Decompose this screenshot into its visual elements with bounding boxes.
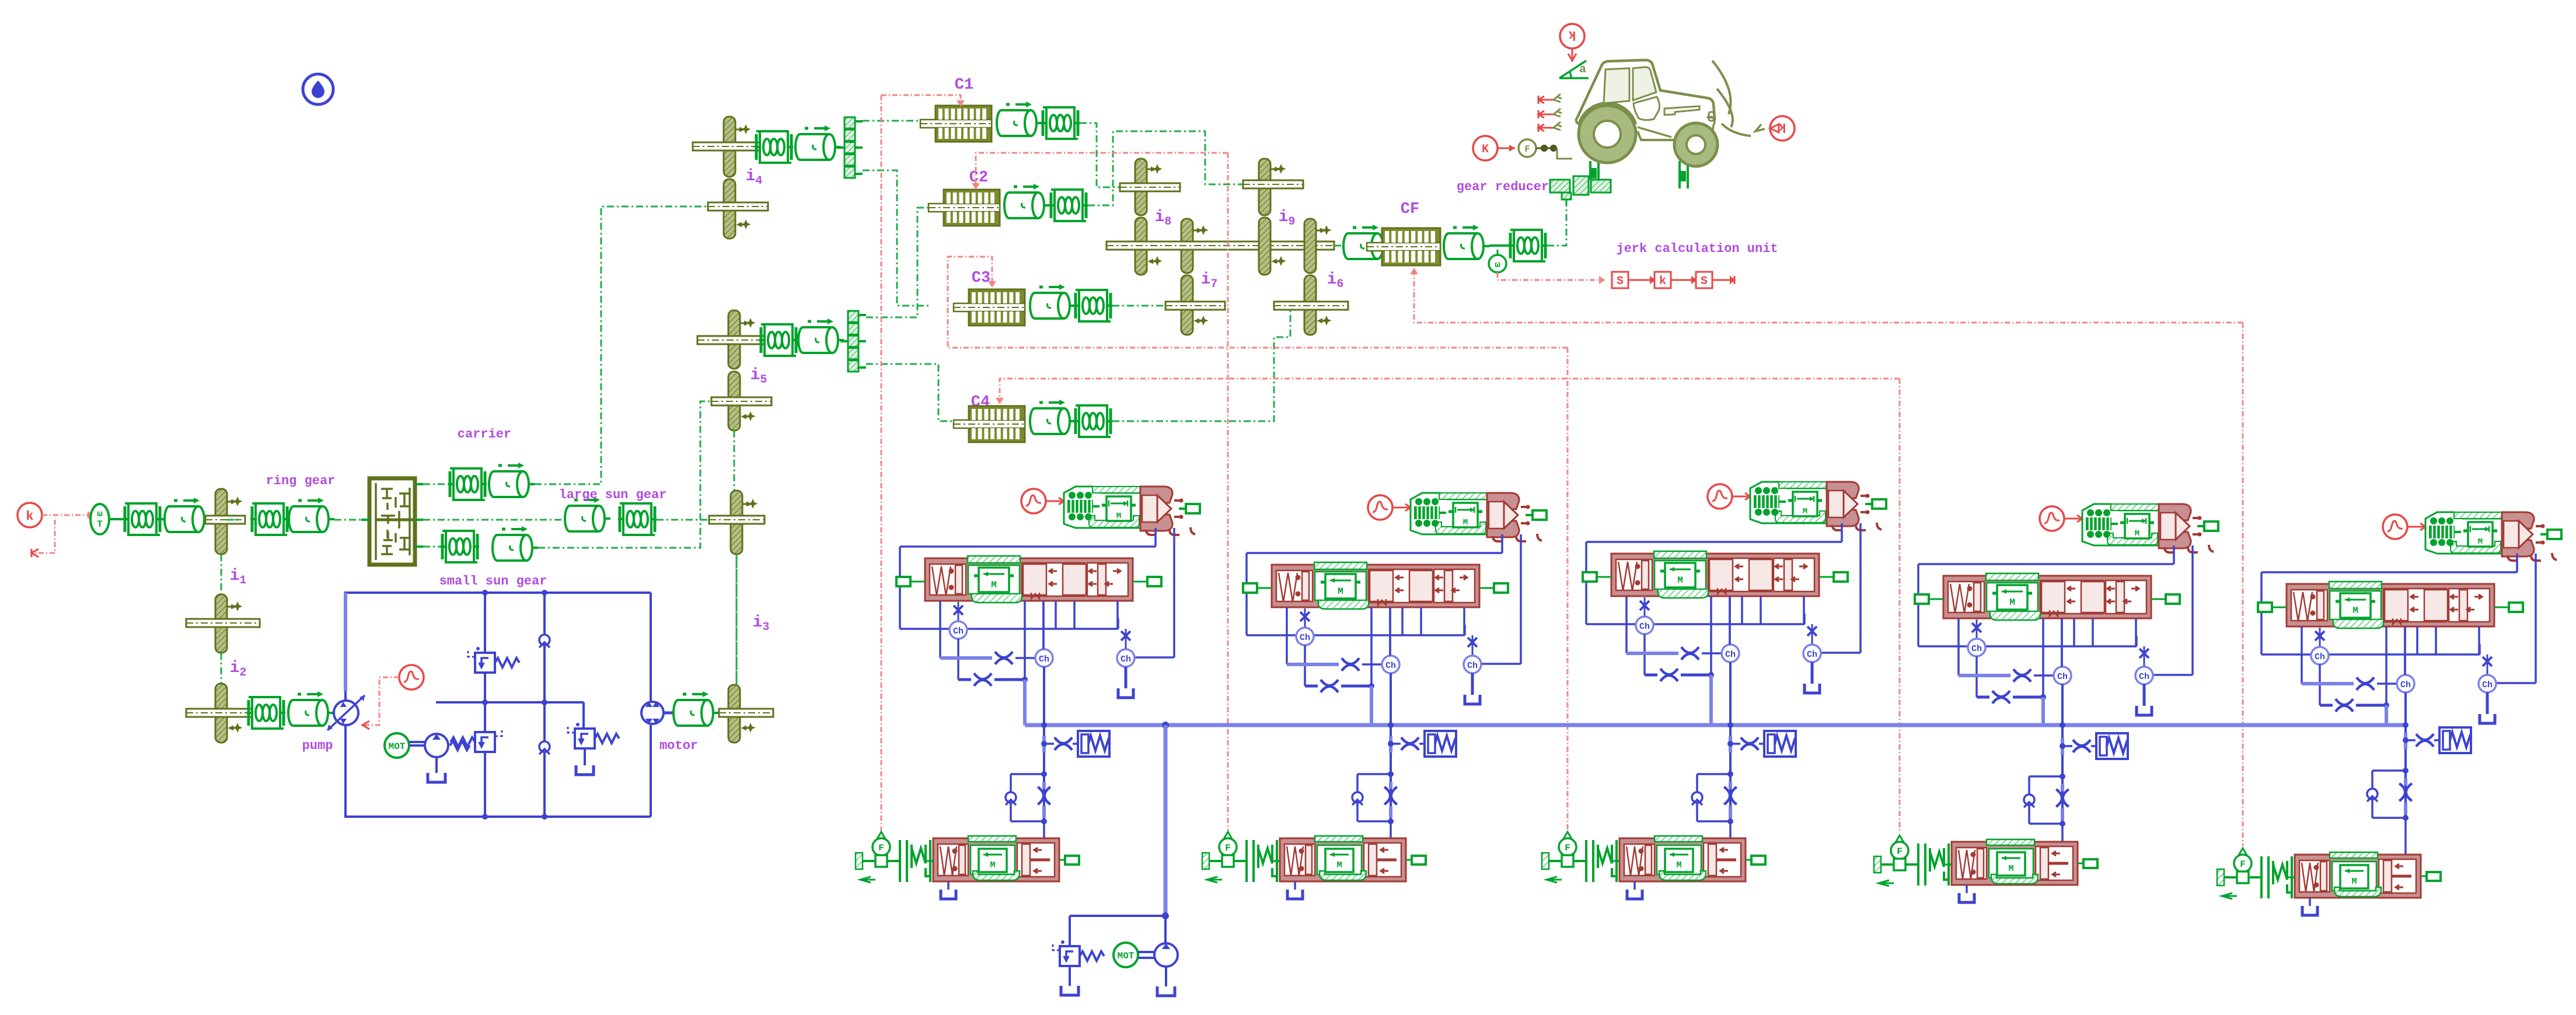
throttle: [1807, 626, 1817, 636]
check valve bottom: [539, 741, 550, 754]
CF command line: [1414, 269, 2243, 323]
svg-text:Ch: Ch: [2057, 672, 2068, 682]
k source top: [1560, 24, 1584, 48]
tractor: [1576, 60, 1765, 166]
ground wall: [1874, 856, 1881, 873]
chamber Ch2: [1035, 649, 1053, 667]
wire C3 to i7: [1112, 305, 1165, 307]
ring gear spring-damper: [250, 503, 289, 535]
wire: [423, 484, 448, 485]
wire to bus: [1023, 680, 1027, 725]
svg-text:K: K: [1482, 143, 1489, 156]
shaft i6 lower: [1274, 302, 1348, 310]
svg-text:ω: ω: [97, 509, 103, 519]
boost tank: [435, 757, 438, 773]
throttle X2: [1660, 668, 1678, 681]
svg-text:ω: ω: [1495, 260, 1500, 270]
wire junction-C1: [863, 120, 931, 122]
main pump variable: [334, 701, 358, 725]
frame thick segment: [344, 593, 347, 691]
CF right load: [1443, 225, 1489, 259]
wire: [423, 546, 441, 548]
svg-text:gear reducer: gear reducer: [1457, 180, 1549, 194]
check valve: [2024, 794, 2034, 807]
C1 spring-damper: [1041, 107, 1080, 139]
chamber Ch3: [2135, 667, 2153, 684]
slip arcs: [1712, 61, 1751, 136]
S block 1: [1612, 272, 1628, 288]
pump load: [287, 691, 334, 726]
throttle vertical: [1038, 787, 1050, 804]
pilot wire A: [1841, 523, 1843, 542]
svg-text:S: S: [1617, 275, 1624, 288]
spring chamber: [1078, 731, 1109, 757]
accumulator line: [2406, 739, 2416, 741]
clutch plate stack: [1247, 840, 1280, 882]
C1 load: [996, 101, 1042, 136]
wire Ch2-bus: [2061, 684, 2064, 725]
pilot wire A: [2173, 545, 2175, 564]
throttle X3: [2013, 669, 2031, 682]
pilot wire A: [2516, 554, 2518, 572]
carrier spring-damper: [448, 468, 487, 500]
chamber Ch2: [1382, 656, 1399, 673]
svg-text:CF: CF: [1401, 201, 1419, 218]
svg-text:M: M: [991, 580, 997, 590]
wire F-stack: [887, 860, 900, 862]
gear i6 lower: [1304, 275, 1316, 335]
large sun load: [564, 497, 610, 531]
pilot pressure valve: [1411, 493, 1547, 541]
oil drop icon: [303, 74, 333, 104]
throttle: [2416, 734, 2434, 747]
throttle X2: [1992, 691, 2010, 703]
svg-text:Ch: Ch: [1039, 654, 1049, 664]
proportional spool valve: [925, 556, 1133, 603]
svg-text:Ch: Ch: [2139, 672, 2149, 682]
wire omega to S: [1498, 272, 1605, 280]
force sensor F: [2239, 848, 2247, 857]
supply pump tank: [1165, 967, 1167, 986]
gear i4 upper: [724, 117, 735, 177]
S block 2: [1696, 272, 1712, 288]
K source left: [1473, 136, 1498, 160]
branch junction: [2403, 722, 2409, 728]
chamber line: [900, 628, 1118, 630]
svg-text:M: M: [990, 860, 995, 870]
wire Ch2 top: [1729, 596, 1731, 645]
throttle: [2073, 740, 2090, 752]
clutch C4: [954, 406, 1025, 442]
gear i5 upper: [728, 310, 740, 369]
relief valve A: [468, 647, 519, 673]
wire Ch2-bus: [1729, 662, 1732, 725]
C3 command line: [948, 257, 1568, 348]
C2 load: [1003, 184, 1050, 218]
junction block i5: [840, 311, 866, 372]
rear wheel: [1674, 123, 1718, 166]
cab windows: [1604, 68, 1629, 103]
pilot wire B: [2535, 554, 2537, 683]
boost pump: [425, 734, 448, 757]
chamber Ch3: [1117, 649, 1135, 667]
chamber Ch1: [1636, 617, 1653, 634]
svg-text:Ch: Ch: [1121, 654, 1131, 664]
ground wall: [856, 853, 863, 869]
force sensor F: [1224, 832, 1232, 841]
wire: [1334, 245, 1342, 247]
orifice check pair: [2403, 768, 2409, 773]
wire to gear: [657, 519, 731, 521]
pilot pressure valve: [2082, 504, 2218, 552]
small sun spring-damper: [441, 531, 479, 562]
svg-text:C1: C1: [955, 76, 973, 94]
throttle: [1300, 612, 1310, 621]
orifice check pair: [2060, 773, 2065, 779]
dashboard: [1664, 106, 1699, 115]
svg-text:M: M: [1803, 507, 1807, 516]
gear i3: [728, 685, 740, 743]
carrier load: [488, 463, 535, 497]
wire i5 lower to G2: [734, 430, 735, 491]
pilot wire A: [1154, 528, 1157, 547]
proportional spool valve: [1611, 551, 1819, 598]
wire: [1304, 645, 1306, 686]
svg-text:MOT: MOT: [1118, 951, 1135, 961]
clutch actuator: [933, 836, 1059, 881]
svg-text:Ch: Ch: [1971, 644, 1982, 654]
svg-text:k: k: [1568, 27, 1576, 42]
i4 spring-damper: [755, 131, 793, 163]
gear i7 lower: [1181, 275, 1193, 335]
C2 spring-damper: [1049, 190, 1088, 221]
Ch3 tank: [2486, 692, 2489, 714]
chamber line: [1586, 623, 1804, 625]
gear i8 lower: [1135, 218, 1147, 275]
wire sig to pump: [362, 677, 399, 725]
wire F-stack: [1234, 860, 1247, 862]
front wheel legs: [1590, 161, 1598, 180]
wire Ch2 top: [1042, 601, 1045, 649]
svg-text:MOT: MOT: [389, 741, 406, 752]
C3 spring-damper: [1074, 290, 1112, 321]
proportional spool valve: [1943, 573, 2151, 620]
clutch C1: [920, 106, 992, 142]
pilot pressure valve: [1750, 482, 1886, 530]
C4 spring-damper: [1074, 405, 1112, 437]
wire sig-pilot: [1392, 507, 1410, 509]
clutch CF: [1367, 228, 1440, 265]
wire C1 to i8: [1080, 123, 1120, 187]
shaft i3: [719, 709, 773, 717]
Ch3 tank: [1471, 673, 1474, 695]
pilot signal source: [1708, 484, 1732, 509]
throttle X3: [1342, 658, 1359, 671]
clutch C2: [929, 190, 1000, 226]
svg-text:C3: C3: [972, 269, 990, 287]
wire F-stack: [1905, 863, 1918, 866]
Ch3 tank: [1125, 667, 1128, 688]
svg-text:k: k: [1659, 275, 1666, 288]
svg-text:M: M: [1338, 586, 1343, 597]
shaft i2: [186, 709, 260, 717]
check valve: [1006, 792, 1016, 805]
svg-text:Ch: Ch: [1725, 650, 1736, 660]
wire: [957, 639, 959, 680]
ring gear load: [288, 498, 334, 532]
check valve: [1692, 792, 1702, 805]
svg-text:M: M: [1116, 512, 1121, 521]
chamber line: [1918, 645, 2137, 647]
gear large-sun out: [731, 491, 742, 554]
pump riser: [1164, 725, 1168, 916]
pilot signal source: [399, 665, 424, 689]
ground wall: [1202, 853, 1209, 869]
body under cab: [1638, 118, 1718, 141]
wire: [1628, 279, 1654, 281]
svg-text:M: M: [1677, 575, 1683, 586]
svg-text:F: F: [878, 843, 884, 853]
chamber Ch2: [2054, 667, 2071, 684]
gear i5 lower: [728, 372, 740, 430]
branch mid vertical 1: [484, 593, 486, 817]
drain thick: [1287, 663, 1339, 666]
gear i6 upper: [1304, 219, 1316, 273]
svg-text:motor: motor: [659, 738, 698, 753]
wire sig-pilot: [2064, 518, 2082, 520]
main supply bus: [1025, 723, 2406, 727]
svg-text:Ch: Ch: [1639, 622, 1650, 632]
clutch plate stack: [2261, 856, 2295, 898]
chamber Ch3: [1464, 656, 1481, 673]
svg-text:k: k: [26, 509, 33, 524]
throttle: [954, 605, 963, 615]
chamber Ch3: [1803, 645, 1821, 662]
svg-text:F: F: [1565, 843, 1570, 853]
supply pump junction: [1162, 912, 1169, 919]
pump spring-damper: [247, 697, 285, 729]
chamber Ch1: [2311, 647, 2329, 664]
pilot wire A: [1501, 534, 1503, 553]
shaft i1b: [186, 619, 260, 627]
motor circle: [641, 702, 664, 724]
spring chamber: [1425, 731, 1456, 757]
gear i4 lower: [724, 179, 735, 239]
svg-text:F: F: [1524, 144, 1530, 155]
wire to pump: [333, 712, 335, 714]
mid horizontal: [436, 701, 584, 703]
wire Ch2 top: [2061, 618, 2063, 667]
shaft i5 lower: [711, 397, 772, 405]
force sensor F: [1563, 832, 1572, 841]
force sensor F: [877, 832, 885, 841]
wire k to speed source: [42, 514, 88, 516]
accumulator line: [2062, 745, 2072, 747]
branch mid vertical 2: [543, 593, 546, 817]
k source right: [1770, 116, 1795, 141]
wire Ch2-bus: [1043, 667, 1045, 725]
wire: [2319, 664, 2321, 705]
shaft i8 upper: [1120, 183, 1180, 191]
orifice check pair: [1727, 771, 1733, 777]
svg-text:M: M: [1463, 518, 1468, 527]
pilot pressure valve: [2425, 512, 2561, 561]
svg-text:small sun gear: small sun gear: [439, 574, 547, 589]
throttle: [2139, 649, 2149, 658]
supply relief branch: [1070, 915, 1165, 917]
wire F-stack: [2249, 876, 2261, 878]
rotary load L1: [163, 498, 210, 532]
gear i9 lower: [1259, 218, 1270, 275]
omega sensor: [1489, 244, 1509, 247]
throttle vertical: [1724, 787, 1737, 804]
gear i7 upper: [1181, 219, 1193, 273]
Ch3 tank: [2143, 684, 2146, 706]
branch junction: [1727, 722, 1733, 728]
check valve top: [539, 635, 550, 647]
svg-text:large sun gear: large sun gear: [559, 488, 667, 502]
svg-text:M: M: [2135, 529, 2139, 538]
relief valve B: [568, 723, 619, 748]
wind force arrows: [1538, 94, 1562, 104]
wire to bus: [2041, 697, 2045, 725]
gear i9 upper: [1259, 159, 1270, 215]
svg-text:jerk calculation unit: jerk calculation unit: [1616, 242, 1778, 256]
wire small sun riser: [538, 401, 711, 548]
clutch actuator: [2295, 852, 2421, 898]
svg-text:T: T: [97, 519, 103, 530]
supply pump: [1154, 943, 1178, 967]
svg-text:M: M: [2008, 864, 2013, 874]
wire G2 down to i3: [736, 554, 738, 685]
ground wall: [2217, 869, 2224, 885]
clutch plate stack: [900, 840, 933, 882]
accumulator line: [1730, 743, 1740, 745]
CF spring-damper: [1509, 230, 1547, 261]
supply MOT: [1114, 943, 1138, 967]
shaft: [205, 516, 245, 524]
spring chamber: [1764, 731, 1796, 757]
wire to bus: [2385, 705, 2388, 725]
svg-text:Ch: Ch: [1467, 661, 1478, 671]
throttle X3: [995, 652, 1013, 664]
svg-text:pump: pump: [302, 738, 333, 753]
wire: [1975, 656, 1978, 697]
drain thick: [940, 656, 992, 660]
spring chamber: [2096, 733, 2128, 759]
gear i8 upper: [1135, 159, 1147, 215]
pilot wire B: [2191, 545, 2194, 675]
clutch C3: [954, 289, 1025, 325]
throttle: [1468, 638, 1477, 647]
wire i1b-i2: [221, 653, 222, 684]
i4 load: [794, 125, 841, 160]
wire: [162, 518, 166, 520]
svg-text:Ch: Ch: [1385, 661, 1396, 671]
throttle: [1972, 623, 1981, 632]
supply relief tank: [1069, 966, 1071, 986]
pilot signal source: [1021, 489, 1046, 513]
wire Ch2 top: [1389, 607, 1391, 656]
wire junction-C3: [863, 170, 931, 306]
bus junction dots: [1162, 722, 1169, 729]
F converter: [1498, 148, 1515, 149]
front grill: [1709, 112, 1714, 121]
throttle: [1640, 601, 1649, 610]
svg-text:M: M: [1336, 860, 1342, 870]
shaft i7 lower: [1165, 302, 1225, 310]
svg-text:M: M: [2351, 877, 2357, 887]
wire C4 to i6: [1112, 306, 1290, 421]
tractor body: [1577, 60, 1715, 118]
wire C2 to i9: [1088, 131, 1243, 205]
big wheel: [1579, 106, 1636, 163]
clutch actuator: [1280, 836, 1406, 881]
shaft G2: [709, 516, 765, 524]
wire Ch2-bus: [2404, 692, 2407, 725]
large sun spring-damper: [618, 503, 657, 535]
svg-text:F: F: [1225, 843, 1231, 853]
fender arc front: [1579, 103, 1636, 125]
planetary ports: [415, 483, 423, 485]
drain thick: [1959, 674, 2010, 677]
spring-damper ks1: [123, 503, 162, 535]
orifice check pair: [1041, 771, 1047, 777]
wire junction-C2: [866, 208, 943, 317]
wire: [1671, 279, 1696, 281]
pilot wire B: [1520, 534, 1522, 664]
chamber Ch2: [1722, 645, 1739, 662]
wire wT-sd: [109, 518, 123, 520]
chamber line: [2261, 653, 2480, 656]
check valve: [2367, 789, 2378, 801]
wire F-stack: [1573, 860, 1586, 862]
C1 command line: [881, 95, 961, 105]
wire sig-pilot: [1046, 501, 1063, 502]
C4 load: [1029, 400, 1076, 434]
motor load: [672, 691, 719, 726]
svg-text:F: F: [1897, 846, 1903, 857]
throttle X2: [974, 673, 992, 686]
gear i1 lower: [215, 594, 227, 653]
wire end: [1712, 279, 1734, 281]
throttle vertical: [2056, 789, 2069, 807]
signal gain k input: [18, 503, 42, 527]
chamber Ch1: [1968, 639, 1985, 656]
wire sig-pilot: [2407, 526, 2425, 528]
boost pump MOT: [385, 733, 409, 758]
throttle: [1121, 631, 1130, 640]
chamber Ch1: [950, 621, 967, 639]
wire Ch2 top: [2404, 626, 2406, 675]
throttle: [1055, 737, 1072, 750]
branch junction: [1041, 722, 1047, 728]
throttle X2: [2336, 699, 2353, 712]
pilot pressure valve: [1064, 487, 1200, 535]
svg-text:Ch: Ch: [1300, 633, 1310, 643]
throttle: [1401, 737, 1419, 750]
slope icon: [1559, 61, 1589, 78]
boost spring relief: [450, 741, 470, 750]
planetary gear (Ravigneaux): [369, 478, 415, 565]
svg-text:Ch: Ch: [2482, 680, 2493, 690]
wire junction-C4: [866, 364, 962, 421]
gear reducer: [1550, 176, 1611, 205]
svg-text:M: M: [1676, 860, 1681, 870]
wire: [247, 712, 266, 713]
junction block i4: [837, 117, 863, 178]
pilot signal source: [2383, 514, 2407, 539]
